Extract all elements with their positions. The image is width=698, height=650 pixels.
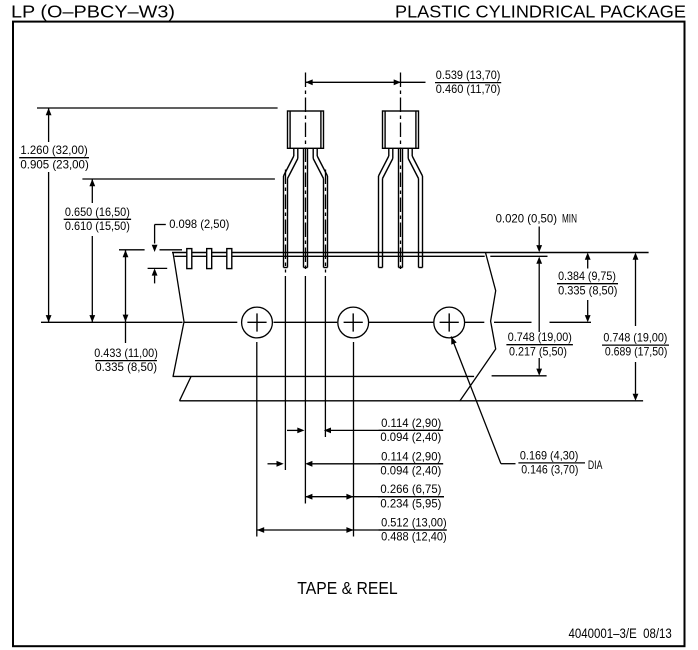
package 2 (TO-92) left lead [379,148,393,267]
svg-text:0.610 (15,50): 0.610 (15,50) [65,219,130,233]
package 1 (TO-92) body [288,111,324,148]
dimension 0.539/0.460 line [306,79,426,85]
svg-text:0.234 (5,95): 0.234 (5,95) [380,496,441,510]
svg-text:MIN: MIN [562,214,577,226]
svg-text:0.020 (0,50): 0.020 (0,50) [496,212,557,226]
svg-text:0.460 (11,70): 0.460 (11,70) [436,82,501,96]
extension line package top [37,107,278,109]
dimension text 0.650 (16,50) / 0.610 (15,50) [64,205,131,233]
cut lead stub 3 [227,249,232,269]
package 1 (TO-92) right lead centerline [325,170,327,273]
svg-text:0.512 (13,00): 0.512 (13,00) [381,516,447,530]
svg-text:0.094 (2,40): 0.094 (2,40) [380,430,441,444]
package 2 (TO-92) center lead [399,148,403,267]
tape lower strip edge [180,400,644,402]
package 2 (TO-92) right lead [408,148,422,267]
tape bottom break step [180,377,191,401]
svg-text:0.748 (19,00): 0.748 (19,00) [508,330,572,344]
dimension 0.433/0.335 line [123,250,129,343]
sprocket hole 1 [242,307,273,338]
dimension text 0.114 (2,90) / 0.094 (2,40) row 2 [379,449,444,477]
svg-text:0.335 (8,50): 0.335 (8,50) [558,283,617,297]
svg-text:0.905 (23,00): 0.905 (23,00) [20,157,88,171]
dimension 0.020 leader arrow [536,227,542,253]
dimension text 0.512 (13,00) / 0.488 (12,40) [379,516,447,544]
dimension 0.384/0.335 line [585,253,591,323]
dimension 0.098 arrows and extension lines [119,245,182,284]
dimension text 0.114 (2,90) / 0.094 (2,40) row 1 [379,416,444,444]
dimension text 0.169 (4,30) / 0.146 (3,70) [518,448,585,476]
svg-text:LP (O–PBCY–W3): LP (O–PBCY–W3) [11,1,175,21]
sprocket hole centerline [41,321,591,323]
sprocket hole 2 [338,307,369,338]
svg-text:0.098 (2,50): 0.098 (2,50) [169,217,229,231]
dimension text 0.748 (19,00) / 0.217 (5,50) [506,330,573,358]
svg-text:0.384 (9,75): 0.384 (9,75) [558,269,616,283]
dimension 0.748/0.689 line [633,253,639,401]
package 2 (TO-92) centerline [400,73,402,273]
tape right break edge [460,253,496,401]
dimension 1.260/0.905 line [46,108,52,322]
dimension 0.169 DIA leader [451,337,515,464]
dimension 0.266/0.234 row 3 line [305,494,444,500]
svg-text:0.335 (8,50): 0.335 (8,50) [95,360,157,374]
svg-text:0.114 (2,90): 0.114 (2,90) [381,449,441,463]
tape bottom edge [173,375,547,378]
svg-text:0.146 (3,70): 0.146 (3,70) [521,463,578,477]
extension line center lead [304,276,306,504]
extension line right lead [324,276,326,437]
extension line left lead [284,276,286,470]
dimension text 1.260 (32,00) / 0.905 (23,00) [19,143,89,171]
svg-text:0.689 (17,50): 0.689 (17,50) [605,345,668,359]
tape adhesive top line [172,252,649,254]
svg-text:0.650 (16,50): 0.650 (16,50) [65,205,130,219]
dimension text 0.266 (6,75) / 0.234 (5,95) [378,482,444,510]
dimension text 0.384 (9,75) / 0.335 (8,50) [557,269,618,297]
svg-text:TAPE & REEL: TAPE & REEL [297,578,398,598]
tape left break edge [173,253,184,377]
package 1 (TO-92) centerline [305,73,307,273]
package 2 (TO-92) body [383,111,419,148]
dimension text 0.539 (13,70) / 0.460 (11,70) [435,68,501,96]
svg-text:0.114 (2,90): 0.114 (2,90) [381,416,441,430]
dimension text 0.433 (11,00) / 0.335 (8,50) [94,346,158,374]
svg-text:4040001–3/E 08/13: 4040001–3/E 08/13 [569,626,672,641]
cut lead stub 1 [187,249,192,269]
svg-text:0.169 (4,30): 0.169 (4,30) [520,448,579,462]
svg-text:PLASTIC CYLINDRICAL PACKAGE: PLASTIC CYLINDRICAL PACKAGE [395,2,686,22]
package 1 (TO-92) center lead [304,148,308,267]
svg-text:DIA: DIA [588,460,603,472]
svg-text:0.539 (13,70): 0.539 (13,70) [436,68,501,82]
svg-text:0.433 (11,00): 0.433 (11,00) [94,346,158,360]
package 1 (TO-92) left lead [284,148,298,267]
dimension 0.748/0.217 line [536,257,542,376]
dimension 0.512/0.488 row 4 line [257,527,447,533]
dimension text 0.748 (19,00) / 0.689 (17,50) [602,331,669,359]
svg-text:0.266 (6,75): 0.266 (6,75) [380,482,441,496]
tape adhesive bottom line [175,255,548,257]
svg-text:0.748 (19,00): 0.748 (19,00) [603,331,667,345]
extension line sprocket hole 2 [353,342,355,537]
extension line sprocket hole 1 [256,342,258,537]
svg-text:0.488 (12,40): 0.488 (12,40) [381,530,447,544]
sprocket hole 3 [434,307,465,338]
dimension 0.650/0.610 line [89,179,95,322]
package 1 (TO-92) right lead [313,148,327,267]
package 1 (TO-92) left lead centerline [285,170,287,273]
dimension text 0.020 (0,50) MIN [496,212,577,226]
dimension 0.114/0.094 row 2 line [268,461,444,467]
cut lead stub 2 [207,249,212,269]
dimension 0.114/0.094 row 1 line [287,428,443,434]
dimension 0.098 leader [155,225,166,244]
svg-text:0.094 (2,40): 0.094 (2,40) [380,463,441,477]
svg-text:1.260 (32,00): 1.260 (32,00) [20,143,87,157]
svg-text:0.217 (5,50): 0.217 (5,50) [509,344,567,358]
extension line lead bend [82,178,275,180]
